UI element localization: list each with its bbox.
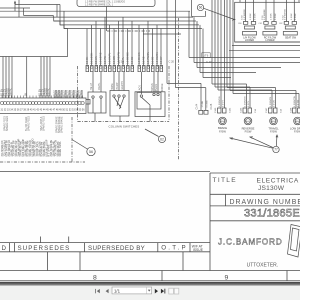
svg-text:C 19: C 19 [119,60,125,64]
svg-text:0.5 OG: 0.5 OG [274,100,276,107]
svg-text:0.5 PL: 0.5 PL [248,100,250,107]
svg-text:SPARE: SPARE [80,90,83,98]
svg-text:OG/PL: OG/PL [98,82,101,90]
svg-text:0.5 SE: 0.5 SE [131,56,134,64]
svg-text:SUPERSEDES: SUPERSEDES [18,245,71,252]
svg-text:C147: C147 [266,107,268,113]
svg-text:SUPERSEDED BY: SUPERSEDED BY [88,245,145,252]
frame line above table [0,171,210,173]
svg-text:0.5 YW: 0.5 YW [104,55,107,64]
svg-text:BLACK: BLACK [138,85,141,93]
svg-text:SPARE: SPARE [161,83,164,91]
circle ref 62 with leader [145,129,166,143]
svg-text:0.5 RE: 0.5 RE [143,56,146,64]
lamp inner codes [220,120,300,123]
svg-text:0.5 GY: 0.5 GY [160,56,163,64]
svg-text:8: 8 [93,275,97,282]
svg-text:SPARE: SPARE [72,90,75,98]
svg-text:331/1865E: 331/1865E [244,208,300,220]
column switches caption [109,125,140,129]
svg-text:1/1: 1/1 [114,288,121,293]
svg-text:0.5 WE/GN: 0.5 WE/GN [285,9,287,20]
pager page field [112,287,152,294]
svg-text:SPARE: SPARE [68,90,71,98]
svg-text:1.5 BN: 1.5 BN [202,100,204,107]
circle ref 77 with leaders [230,135,279,153]
svg-text:BK: BK [24,92,27,96]
svg-text:ISSUE: ISSUE [193,248,204,252]
circle ref 66 [192,0,206,16]
JCB logo outline [288,225,303,258]
svg-text:0.5 WE/RE: 0.5 WE/RE [244,9,246,20]
svg-text:SPARE YW/PL: SPARE YW/PL [59,140,62,156]
relay panel top right [235,0,305,42]
svg-text:SPARE: SPARE [60,90,63,98]
svg-text:77: 77 [274,148,278,152]
svg-text:C61: C61 [259,23,262,25]
note box text [85,1,125,7]
terminal strip connector [0,98,86,114]
svg-text:O.T.P: O.T.P [161,245,187,252]
svg-text:0.5 UE/BK: 0.5 UE/BK [91,52,94,64]
svg-text:SPARE FEED: SPARE FEED [43,116,46,131]
svg-text:0.5 BK: 0.5 BK [295,13,297,20]
column switch lower wire labels [90,81,164,93]
toolbar background [0,286,300,300]
svg-text:1.0 BK: 1.0 BK [291,13,293,20]
svg-text:2W PK: 2W PK [10,88,13,96]
svg-text:C62: C62 [279,23,282,25]
lamp wires down [247,84,300,108]
svg-text:C146: C146 [241,107,243,113]
column switch box 3 [135,92,165,117]
svg-text:1.5 BN/OG: 1.5 BN/OG [245,96,247,107]
svg-text:TITLE: TITLE [213,177,237,184]
svg-text:SPARE: SPARE [64,90,67,98]
svg-text:UTTOXETER.: UTTOXETER. [247,263,279,269]
UT6 label [119,53,214,110]
left wire name labels under strip [1,138,62,156]
svg-text:COLUMN SWITCHES: COLUMN SWITCHES [109,125,140,129]
svg-text:HE LP: HE LP [90,83,93,90]
revision table texts [2,244,204,252]
svg-text:JS130W: JS130W [258,185,285,192]
svg-text:PUMP: PUMP [116,82,119,89]
revision table [0,237,210,271]
switch wires into boxes [93,72,158,122]
right area bus horizontals [229,42,300,50]
leader from circle 66 to panel [204,8,235,20]
svg-text:C148: C148 [291,107,293,113]
svg-text:F/SW: F/SW [294,129,300,133]
svg-text:SEAT SW: SEAT SW [285,37,297,40]
sheet bottom border and zone strip [0,271,300,281]
dash-dot borders [0,18,179,163]
left-mid spare labels [4,116,64,133]
svg-text:0.5 WE: 0.5 WE [207,100,209,108]
svg-text:SPARE FEED: SPARE FEED [6,116,9,131]
title block texts [213,177,310,269]
svg-text:62: 62 [160,137,164,141]
svg-text:C141: C141 [230,107,232,113]
lamp captions [218,126,305,133]
dark separator strip [0,282,300,286]
terminal strip number row [1,109,86,111]
svg-text:EARTH: EARTH [121,81,124,89]
svg-text:AG4: AG4 [295,120,300,123]
relay panel wire labels [238,9,297,26]
svg-text:1.5 BE/WE: 1.5 BE/WE [127,52,130,64]
svg-text:0.5 WE/BE: 0.5 WE/BE [264,9,266,20]
circle ref 56 with leader [72,140,95,156]
pager prev button [106,289,109,293]
svg-text:C145: C145 [210,103,213,109]
svg-text:0.5 BK: 0.5 BK [254,13,256,20]
svg-text:56: 56 [89,150,93,154]
zone boundary vertical [178,18,180,160]
column switch connector ticks [86,66,163,72]
svg-text:SPARE: SPARE [76,90,79,98]
svg-text:F/SW: F/SW [245,129,252,133]
lamp wire labels [215,95,300,113]
svg-text:1.5 BN/PK: 1.5 BN/PK [270,96,272,107]
svg-text:J.C.BAMFORD: J.C.BAMFORD [218,237,283,247]
svg-text:66: 66 [199,6,203,10]
svg-text:ELECTRICA: ELECTRICA [257,178,299,185]
svg-text:SPARE FEED: SPARE FEED [28,116,31,131]
wire verticals top-left [14,0,64,29]
svg-text:1.5 RE/YW SPARE COL 1: 1.5 RE/YW SPARE COL 1 [85,4,114,7]
svg-text:1.5 YW/BN: 1.5 YW/BN [147,52,150,64]
svg-text:0.5 BE: 0.5 BE [152,56,155,64]
column switches enclosure [78,66,170,122]
svg-text:0.5 YW: 0.5 YW [298,99,300,107]
zone numbers [93,275,229,282]
svg-text:0.5 WE: 0.5 WE [113,56,116,64]
svg-text:1.5 BK/GN: 1.5 BK/GN [138,52,141,64]
svg-text:C60: C60 [238,23,241,25]
C144 feeder wires [167,0,206,110]
svg-text:1.0 BK: 1.0 BK [250,13,252,20]
svg-text:0.5 BK: 0.5 BK [275,13,277,20]
svg-text:C 20: C 20 [206,60,212,64]
note box rounded [77,0,155,7]
wire labels above strip [1,88,83,98]
column switch box 2 [110,91,129,117]
svg-text:9: 9 [225,275,229,282]
svg-text:0.5 GN: 0.5 GN [95,56,98,64]
svg-text:1.0 BK: 1.0 BK [271,13,273,20]
svg-text:0.5 GY: 0.5 GY [223,100,225,107]
svg-text:2W PK: 2W PK [48,88,51,96]
svg-text:C 20: C 20 [169,60,175,64]
svg-text:1.5 UE/RE: 1.5 UE/RE [100,52,103,64]
svg-text:0.5 BK: 0.5 BK [86,56,89,64]
pager last button [161,289,165,294]
left dash-dot horizontal [0,161,85,163]
mid connector pair C144 [199,110,208,114]
toolbar page icons [169,288,179,294]
vertical wire bundle to lamps [212,0,299,108]
ECU big box stepped outline [0,17,68,56]
column switch box 1 [88,92,106,113]
title block [210,173,300,271]
pager first button [95,289,100,293]
left dash-dot vertical [71,117,73,163]
svg-text:F/SW: F/SW [270,129,277,133]
wire bus top-left horizontals [0,5,202,29]
svg-text:BN/GN: BN/GN [155,84,158,92]
column switch upper wire labels [86,51,163,64]
svg-text:YW/GN: YW/GN [151,83,154,91]
lamp connector boxes [218,108,302,113]
svg-text:1.5 OG/BK: 1.5 OG/BK [156,52,159,64]
svg-text:1.5 BN/GN: 1.5 BN/GN [219,96,221,107]
svg-text:LOWER: LOWER [245,39,254,42]
relay panel group captions [243,37,296,43]
svg-text:31 32 33 34 35 36 37 38 39 40: 31 32 33 34 35 36 37 38 39 40 41 42 43 4… [1,109,86,111]
svg-text:SPARE SPARE: SPARE SPARE [61,116,64,133]
svg-text:1.5 BN/YW: 1.5 BN/YW [294,95,296,107]
svg-text:DRAWING NUMBER: DRAWING NUMBER [230,199,301,206]
terminal strip pin circles [0,101,84,104]
svg-text:D: D [2,245,7,252]
svg-text:1.5 GN/PL: 1.5 GN/PL [109,52,112,64]
svg-text:C144: C144 [196,103,199,109]
svg-text:WIPE: WIPE [111,83,114,90]
pager next button [155,289,158,294]
vertical wire from note box [107,7,182,35]
wires from ECU box bottom to terminal strip [3,57,82,99]
staircase wires to right side [189,11,300,77]
svg-text:LOWER: LOWER [265,39,274,42]
svg-text:C140: C140 [215,107,217,113]
note box dashdot [107,30,150,32]
column switch fan wires [87,17,161,65]
lamp symbols [219,117,302,125]
svg-text:UT6: UT6 [203,54,209,58]
svg-text:F/SW: F/SW [219,129,226,133]
